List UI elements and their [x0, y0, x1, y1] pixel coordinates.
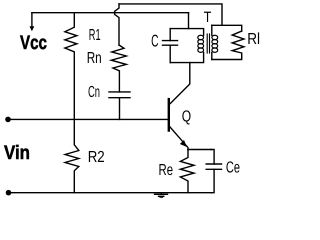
transformer core — [207, 34, 209, 53]
wire bottom ground rail — [9, 192, 212, 194]
wire Vcc drop to tank — [188, 13, 190, 29]
svg-text:Vin: Vin — [4, 142, 30, 164]
ground symbol — [155, 193, 168, 198]
terminal Vcc (input stub with arrowhead) — [30, 13, 35, 32]
wire collector tap (tank bottom to transistor collector) — [170, 63, 190, 104]
svg-text:C: C — [151, 31, 158, 50]
svg-text:T: T — [204, 9, 212, 26]
capacitor C — [163, 29, 178, 63]
capacitor Ce — [206, 150, 221, 193]
inductor T primary coil — [198, 35, 204, 52]
svg-text:Q: Q — [182, 109, 191, 126]
transistor Q (NPN) — [169, 99, 188, 149]
svg-text:Cn: Cn — [88, 84, 100, 101]
svg-text:Rn: Rn — [87, 50, 102, 67]
wire emitter rail (top of Re/Ce pair) — [188, 149, 211, 151]
wire secondary bottom (to Rl) — [212, 57, 242, 60]
resistor R1 (with leads: Vcc rail down to base rail) — [65, 13, 77, 120]
svg-text:Ce: Ce — [226, 160, 240, 177]
node Vin- terminal dot — [6, 190, 12, 196]
resistor Rl — [232, 31, 244, 56]
svg-text:Vcc: Vcc — [20, 32, 47, 54]
inductor T secondary coil — [212, 25, 218, 59]
svg-text:Rl: Rl — [247, 31, 260, 48]
node Vin+ terminal dot — [5, 117, 11, 123]
wire Vcc rail (top horizontal supply wire) — [32, 12, 189, 14]
resistor Rn — [111, 45, 126, 92]
resistor Re — [180, 150, 194, 193]
wire top feedback rail (from Rn branch over to transformer secondary) — [119, 4, 222, 25]
wire tank bottom (C bottom to transformer primary bottom) — [170, 52, 203, 62]
wire Rn branch with crossover hop over Vcc rail — [115, 4, 119, 45]
capacitor Cn — [109, 92, 130, 120]
svg-text:R2: R2 — [88, 149, 105, 166]
resistor R2 (with leads: base rail down to ground rail) — [65, 119, 79, 192]
svg-text:R1: R1 — [89, 27, 101, 44]
wire base rail (from Vin+ to transistor base) — [8, 118, 169, 120]
svg-text:Re: Re — [159, 162, 174, 179]
wire secondary top (to Rl) — [212, 25, 242, 31]
wire tank top (C top to transformer primary top) — [170, 29, 203, 36]
